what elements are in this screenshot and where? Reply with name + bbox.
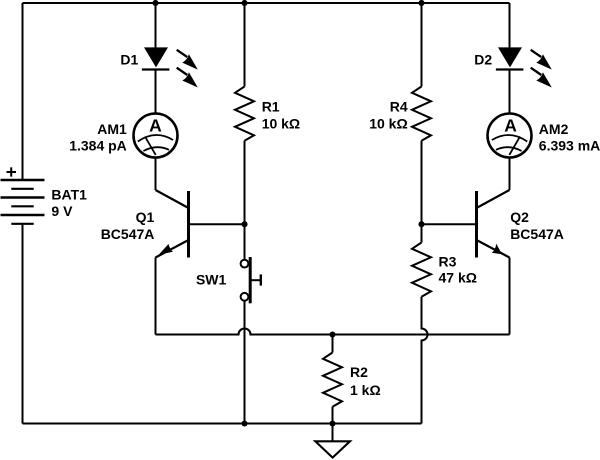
wire ground stub — [332, 424, 334, 442]
wire R3 to bottom rail with hop over emitter rail — [422, 297, 428, 424]
svg-text:1 kΩ: 1 kΩ — [350, 382, 381, 398]
LED D1 — [142, 47, 198, 87]
svg-text:AM2: AM2 — [539, 121, 569, 137]
wire Q2 emitter lead — [509, 258, 511, 335]
svg-text:A: A — [504, 116, 517, 136]
svg-text:D1: D1 — [120, 51, 138, 67]
svg-text:A: A — [149, 116, 162, 136]
wire Q1 emitter lead — [155, 258, 157, 335]
node Q2 base — [418, 221, 424, 227]
svg-text:SW1: SW1 — [196, 272, 227, 288]
wire R2 bottom lead — [332, 407, 334, 424]
svg-text:R4: R4 — [390, 99, 408, 115]
svg-text:47 kΩ: 47 kΩ — [439, 270, 477, 286]
node bottom rail / R2 — [329, 420, 335, 426]
battery BAT1 — [1, 180, 45, 224]
wire R1 to SW1 (base node) — [244, 141, 246, 260]
svg-text:R3: R3 — [439, 254, 457, 270]
svg-text:9 V: 9 V — [51, 203, 73, 219]
svg-text:BAT1: BAT1 — [51, 187, 87, 203]
node emitter rail / R2 — [329, 331, 335, 337]
svg-text:10 kΩ: 10 kΩ — [262, 116, 300, 132]
wire D1 top lead — [155, 3, 157, 48]
node bottom rail / SW1 — [241, 420, 247, 426]
wire D2 top lead — [509, 3, 511, 48]
svg-text:R2: R2 — [350, 364, 368, 380]
wire R4 to R3 (base node) — [421, 141, 423, 243]
ammeter AM1 — [134, 114, 178, 158]
wire bottom rail — [23, 423, 422, 425]
svg-text:1.384 pA: 1.384 pA — [69, 137, 127, 153]
node top rail / D1 — [152, 0, 158, 6]
svg-text:6.393 mA: 6.393 mA — [539, 137, 600, 153]
wire SW1 to bottom rail — [244, 301, 246, 424]
node Q1 base — [241, 221, 247, 227]
wire AM1 to Q1 collector — [155, 158, 157, 191]
transistor Q1 — [156, 190, 245, 258]
ground — [315, 441, 350, 457]
wire R2 top lead — [332, 335, 334, 353]
wire D2 to AM2 — [509, 70, 511, 114]
wire emitter rail with hop over switch wire — [156, 329, 510, 335]
resistor R1 — [235, 87, 254, 141]
node top rail / R4 — [418, 0, 424, 6]
svg-text:Q1: Q1 — [136, 209, 155, 225]
wire left rail (battery bottom to bottom rail) — [22, 224, 24, 424]
battery plus sign — [7, 167, 17, 176]
ammeter AM2 — [488, 114, 532, 158]
svg-text:R1: R1 — [262, 99, 280, 115]
svg-text:AM1: AM1 — [97, 121, 127, 137]
node top rail / R1 — [241, 0, 247, 6]
wire left rail (battery top) — [22, 3, 24, 180]
resistor R3 — [412, 243, 431, 297]
wire top rail — [23, 2, 510, 4]
transistor Q2 — [422, 190, 510, 258]
wire R4 top lead — [421, 3, 423, 87]
wire AM2 to Q2 collector — [509, 158, 511, 191]
resistor R4 — [412, 87, 431, 141]
svg-text:BC547A: BC547A — [510, 226, 564, 242]
svg-text:Q2: Q2 — [510, 209, 529, 225]
svg-text:BC547A: BC547A — [101, 226, 155, 242]
svg-text:10 kΩ: 10 kΩ — [369, 116, 407, 132]
switch SW1 — [241, 257, 261, 303]
wire D1 to AM1 — [155, 70, 157, 114]
LED D2 — [496, 47, 552, 87]
resistor R2 — [323, 353, 342, 407]
svg-text:D2: D2 — [474, 51, 492, 67]
wire R1 top lead — [244, 3, 246, 87]
